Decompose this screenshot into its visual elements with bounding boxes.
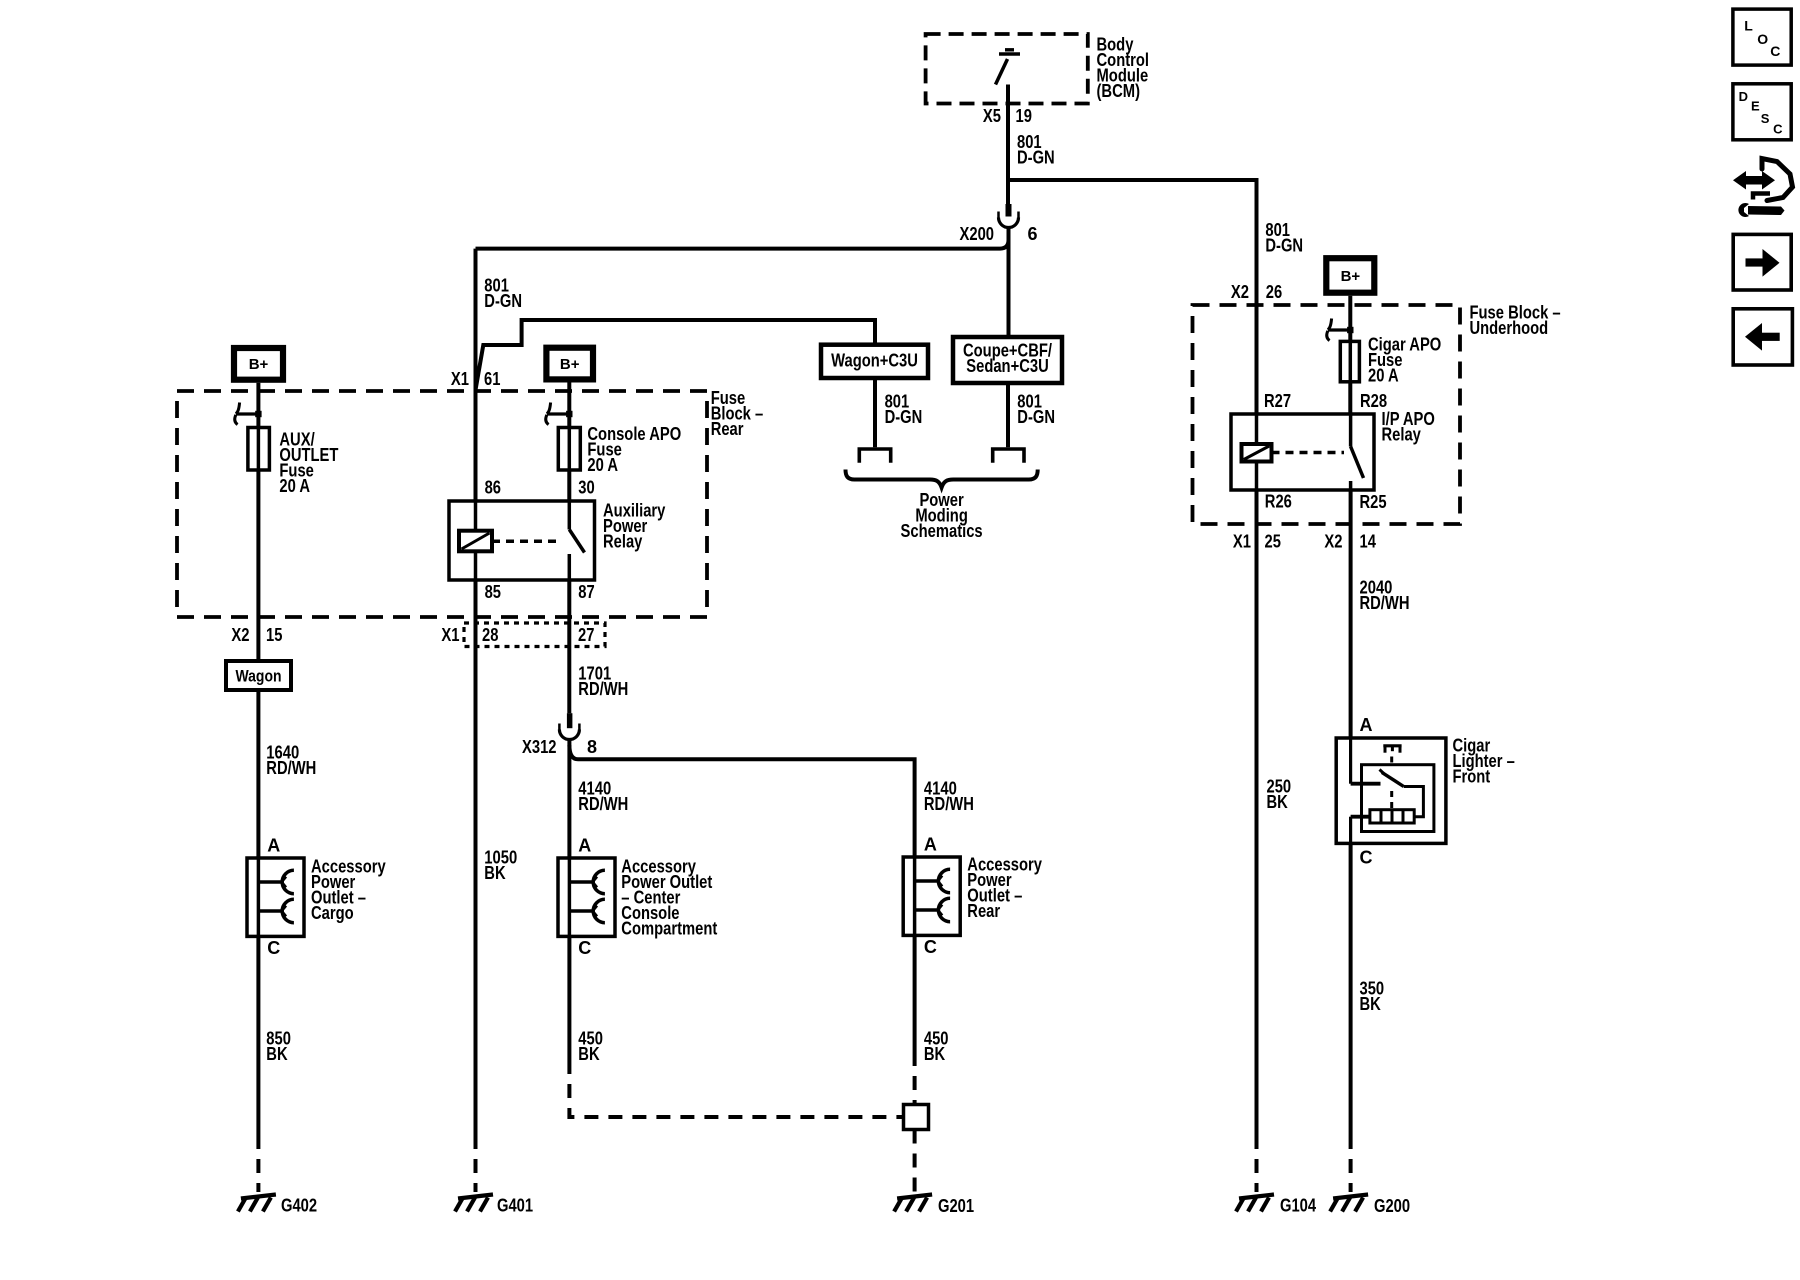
svg-text:Relay: Relay [1382, 425, 1421, 445]
svg-text:G401: G401 [497, 1196, 533, 1216]
svg-text:Sedan+C3U: Sedan+C3U [966, 356, 1049, 376]
relay I/P APO Relay box [1231, 414, 1374, 490]
svg-text:15: 15 [266, 625, 282, 645]
wire 250 BK from relay R26 to ground G104 [1255, 490, 1259, 1135]
svg-text:20 A: 20 A [1368, 366, 1399, 386]
svg-text:87: 87 [578, 582, 594, 602]
wire 4140 RD/WH to center console outlet [567, 740, 571, 859]
svg-text:A: A [578, 836, 591, 856]
svg-text:Cargo: Cargo [311, 903, 354, 923]
svg-text:19: 19 [1016, 106, 1032, 126]
wire 801 D-GN down to fuse block rear X1-61 and relay coil 86 [474, 249, 478, 501]
wire Cigar APO fuse to relay R28 [1348, 382, 1352, 414]
svg-text:C: C [267, 938, 280, 958]
wire 801 D-GN below Coupe+CBF/Sedan+C3U [1006, 383, 1010, 447]
svg-text:D-GN: D-GN [1017, 407, 1055, 427]
svg-text:A: A [267, 836, 280, 856]
svg-text:86: 86 [485, 478, 501, 498]
svg-text:85: 85 [485, 582, 501, 602]
Fuse Block - Underhood dashed box [1193, 305, 1461, 524]
ground G201 symbol [894, 1195, 932, 1212]
option box Wagon [226, 661, 291, 690]
svg-text:8: 8 [587, 737, 597, 757]
svg-text:X312: X312 [522, 737, 557, 757]
svg-text:D-GN: D-GN [885, 407, 923, 427]
svg-text:L: L [1744, 18, 1753, 34]
Fuse Block - Rear dashed box [177, 391, 707, 617]
wire B+ to AUX/OUTLET fuse [256, 383, 260, 428]
svg-text:20 A: 20 A [587, 455, 618, 475]
fuse clip terminal (Cigar APO fuse) [1327, 319, 1354, 341]
svg-text:27: 27 [578, 625, 594, 645]
svg-text:D-GN: D-GN [484, 291, 522, 311]
svg-text:Relay: Relay [603, 532, 642, 552]
svg-text:R25: R25 [1360, 492, 1387, 512]
svg-text:R27: R27 [1264, 391, 1291, 411]
svg-text:Wagon: Wagon [236, 667, 282, 686]
svg-text:X200: X200 [960, 224, 995, 244]
svg-text:X5: X5 [983, 106, 1001, 126]
svg-text:Underhood: Underhood [1470, 318, 1549, 338]
wire 1701 RD/WH from relay pin 87 to X312 [567, 580, 571, 713]
wire branch to Wagon+C3U power moding [476, 320, 876, 390]
svg-text:G200: G200 [1374, 1196, 1410, 1216]
wire 1640 RD/WH to cargo outlet [256, 690, 260, 858]
relay switch (I/P APO Relay) [1351, 414, 1364, 490]
svg-text:G201: G201 [938, 1196, 974, 1216]
svg-text:Rear: Rear [967, 901, 1000, 921]
svg-text:C: C [924, 937, 937, 957]
icon schematic navigation glyph (double arrow, hook arrow, wrench) [1733, 159, 1793, 217]
wire 450 BK dashed segment (rear) [913, 1052, 917, 1105]
connector X312 pin 8 [559, 713, 579, 739]
svg-text:D-GN: D-GN [1265, 236, 1303, 256]
power feed B+ (Console APO fuse) [546, 348, 593, 380]
ground G104 symbol [1236, 1195, 1274, 1212]
svg-text:20 A: 20 A [279, 476, 310, 496]
svg-text:Wagon+C3U: Wagon+C3U [831, 351, 918, 371]
svg-text:28: 28 [482, 625, 498, 645]
svg-text:C: C [1773, 122, 1783, 137]
wire 801 D-GN left branch from X200 junction [476, 240, 1009, 249]
svg-text:X1: X1 [441, 625, 459, 645]
wire relay pin R27 to coil [1255, 414, 1259, 444]
wire 850 BK from cargo outlet [256, 936, 260, 1135]
ground G401 symbol [455, 1195, 493, 1212]
connector X1 dotted box pins 28 27 [464, 623, 605, 647]
fuse Console APO 20A [558, 428, 580, 471]
module Body Control Module (BCM) dashed box [926, 34, 1088, 104]
svg-text:A: A [924, 835, 937, 855]
svg-text:C: C [578, 938, 591, 958]
component Accessory Power Outlet - Rear [903, 857, 960, 935]
wire 450 BK dashed segment to G201 [913, 1130, 917, 1193]
svg-text:R26: R26 [1265, 492, 1292, 512]
relay coil (I/P APO Relay) [1242, 444, 1272, 462]
wire 450 BK dashed segment to splice [569, 1060, 903, 1117]
svg-text:S: S [1761, 111, 1770, 126]
svg-text:Rear: Rear [711, 419, 744, 439]
ground G200 symbol [1330, 1195, 1368, 1212]
svg-text:RD/WH: RD/WH [578, 794, 628, 814]
relay actuation dashed link [492, 540, 562, 544]
wire Console APO fuse to relay pin 30 [567, 470, 571, 501]
svg-text:RD/WH: RD/WH [578, 679, 628, 699]
wire 801 D-GN from BCM X5-19 to X200 [1006, 85, 1010, 205]
wire 4140 RD/WH branch to rear outlet [569, 745, 914, 857]
svg-text:6: 6 [1028, 224, 1038, 244]
power feed B+ (AUX/OUTLET fuse) [234, 348, 283, 380]
wire coil to relay pin 85 [474, 551, 478, 580]
wire 1050 BK dashed segment [474, 1135, 478, 1192]
power feed B+ (Cigar APO fuse) [1326, 258, 1374, 293]
svg-text:BK: BK [1360, 994, 1381, 1014]
icon DESC navigation box [1733, 84, 1791, 140]
svg-text:RD/WH: RD/WH [1360, 593, 1410, 613]
svg-text:Schematics: Schematics [901, 521, 983, 541]
component Cigar Lighter - Front [1336, 738, 1446, 843]
svg-text:BK: BK [1267, 792, 1288, 812]
svg-text:X1: X1 [451, 369, 469, 389]
svg-text:25: 25 [1265, 532, 1281, 552]
wire B+ to Cigar APO fuse [1348, 296, 1352, 342]
fuse Cigar APO 20A [1340, 341, 1359, 381]
relay Auxiliary Power Relay box [449, 501, 595, 580]
BCM internal driver switch [996, 50, 1021, 85]
svg-text:26: 26 [1266, 282, 1282, 302]
svg-text:O: O [1757, 31, 1768, 47]
wire 801 D-GN branch to I/P APO relay coil R27 [1010, 180, 1257, 414]
component Accessory Power Outlet - Cargo [247, 858, 304, 936]
ground G402 symbol [238, 1195, 276, 1212]
wire coil to relay pin R26 [1255, 462, 1259, 491]
svg-text:B+: B+ [1341, 268, 1361, 285]
svg-text:C: C [1770, 43, 1780, 59]
splice junction 450 BK [904, 1105, 929, 1130]
svg-text:BK: BK [578, 1044, 599, 1064]
relay switch (Auxiliary Power Relay) [569, 501, 584, 580]
svg-text:D-GN: D-GN [1017, 148, 1055, 168]
svg-text:B+: B+ [560, 356, 580, 373]
svg-text:E: E [1751, 98, 1760, 113]
svg-text:D: D [1739, 89, 1748, 104]
off-page connector bracket (Coupe branch) [993, 449, 1024, 463]
connector X200 pin 6 [999, 204, 1019, 228]
wire 850 BK dashed segment [256, 1135, 260, 1192]
svg-text:G402: G402 [281, 1196, 317, 1216]
svg-text:RD/WH: RD/WH [266, 758, 316, 778]
svg-text:Front: Front [1453, 767, 1491, 787]
component Accessory Power Outlet - Center Console Compartment [558, 858, 615, 936]
svg-text:BK: BK [924, 1044, 945, 1064]
svg-text:R28: R28 [1360, 391, 1387, 411]
svg-text:C: C [1360, 848, 1373, 868]
svg-text:BK: BK [484, 863, 505, 883]
svg-text:BK: BK [266, 1044, 287, 1064]
fuse clip terminal (AUX/OUTLET fuse) [235, 403, 262, 425]
wire 350 BK from cigar lighter to ground G200 [1349, 843, 1353, 1135]
icon forward arrow box [1733, 234, 1791, 290]
relay actuation dashed link (I/P APO) [1272, 451, 1345, 455]
box Coupe+CBF/Sedan+C3U [953, 337, 1062, 383]
svg-text:X2: X2 [1324, 532, 1342, 552]
wire 801 D-GN from X200 to Coupe+CBF/Sedan+C3U [1007, 228, 1011, 338]
icon back arrow box [1733, 309, 1792, 365]
box Wagon+C3U [821, 345, 928, 378]
wire AUX/OUTLET fuse to X2-15 and Wagon option [256, 470, 260, 661]
svg-text:X2: X2 [231, 625, 249, 645]
wire 450 BK from rear outlet [913, 935, 917, 1052]
wire B+ to Console APO fuse [567, 382, 571, 427]
svg-text:61: 61 [484, 369, 500, 389]
fuse AUX/OUTLET 20A [248, 428, 270, 471]
brace Power Moding Schematics [846, 470, 1038, 488]
wire 350 BK dashed segment [1349, 1135, 1353, 1192]
svg-text:(BCM): (BCM) [1097, 81, 1141, 101]
svg-text:G104: G104 [1280, 1196, 1316, 1216]
wire 450 BK from center console outlet [567, 936, 571, 1060]
off-page connector bracket (Wagon branch) [859, 449, 890, 463]
svg-text:30: 30 [578, 478, 594, 498]
wire relay pin 86 to coil [474, 501, 478, 531]
fuse clip terminal (Console APO fuse) [546, 403, 573, 425]
relay coil (Auxiliary Power Relay) [459, 531, 492, 552]
wire 250 BK dashed segment [1255, 1135, 1259, 1192]
svg-text:X1: X1 [1233, 532, 1251, 552]
wire 801 D-GN below Wagon+C3U [873, 378, 877, 447]
svg-text:A: A [1360, 715, 1373, 735]
svg-text:14: 14 [1360, 532, 1376, 552]
svg-text:X2: X2 [1231, 282, 1249, 302]
svg-text:B+: B+ [249, 356, 269, 373]
svg-text:RD/WH: RD/WH [924, 794, 974, 814]
wire 1050 BK from relay pin 85 to ground G401 [474, 580, 478, 1135]
icon LOC navigation box [1733, 9, 1791, 65]
wire 2040 RD/WH from relay R25 to cigar lighter [1349, 490, 1353, 738]
svg-text:Compartment: Compartment [621, 919, 717, 939]
